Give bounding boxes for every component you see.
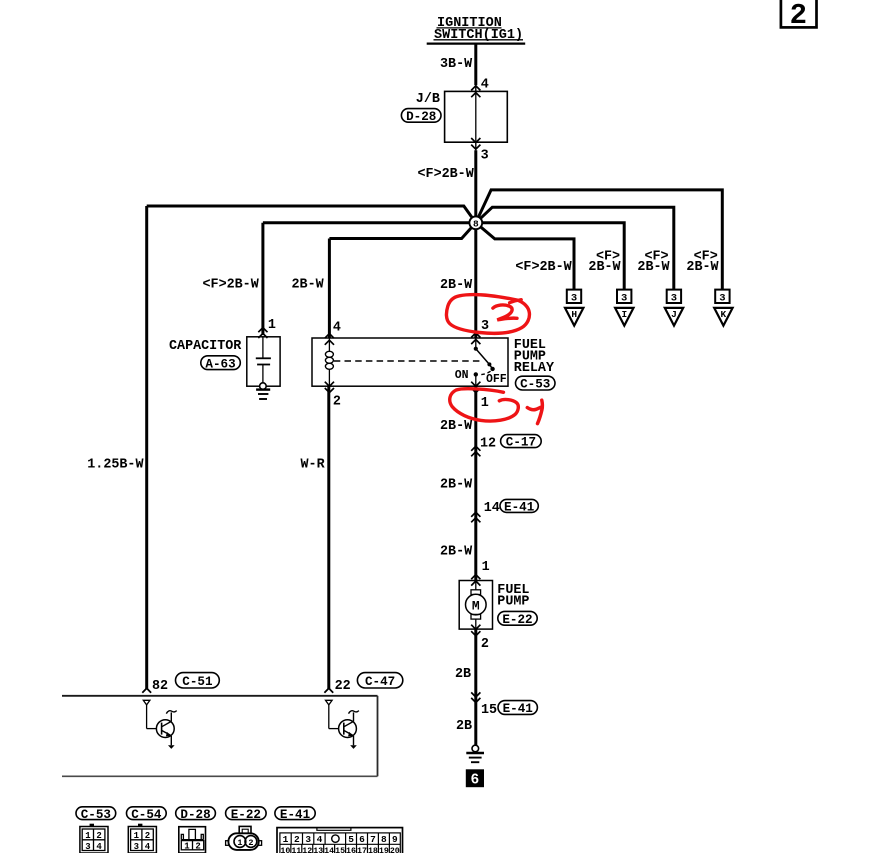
connector chevrons fuel pump pin 1 (471, 575, 480, 586)
wire label 1.25B-W (87, 457, 144, 472)
transistor Q1 (fuel pump relay driver) (143, 700, 176, 749)
svg-text:3: 3 (85, 842, 90, 852)
svg-text:C-53: C-53 (81, 808, 111, 822)
svg-text:J/B: J/B (416, 92, 440, 107)
connector label E-41 lower (498, 701, 537, 717)
svg-text:6: 6 (359, 834, 365, 845)
wire label <F>2B-W branch I (588, 249, 621, 275)
pin 14 E-41 (484, 501, 500, 516)
svg-text:OFF: OFF (486, 373, 507, 386)
svg-text:2B-W: 2B-W (440, 419, 473, 434)
wire 1.25B-W to ECU pin 82 (145, 206, 148, 689)
ignition feed bus line (427, 42, 526, 44)
svg-text:20: 20 (390, 847, 400, 853)
relay switch blade (476, 349, 493, 369)
ground symbol fuel pump (466, 753, 484, 762)
svg-text:2: 2 (790, 0, 807, 32)
wire branch to connector J (476, 207, 674, 290)
connector D-28 pinout (179, 827, 206, 853)
svg-text:4: 4 (317, 834, 323, 845)
motor M1 fuel pump (466, 594, 487, 615)
svg-text:2: 2 (195, 842, 200, 852)
svg-text:3: 3 (571, 292, 577, 304)
wire W-R relay to ECU pin 22 (327, 386, 330, 689)
pin 2 relay (333, 394, 341, 409)
pin 4 J/B (481, 78, 489, 93)
svg-text:2: 2 (481, 637, 489, 652)
svg-text:4: 4 (96, 842, 102, 852)
svg-text:M: M (472, 598, 480, 613)
wire label 2B-W below relay (440, 419, 473, 434)
svg-text:<F>2B-W: <F>2B-W (515, 260, 572, 275)
svg-text:2B-W: 2B-W (440, 545, 473, 560)
wire branch SE to connector H (476, 223, 574, 291)
wire label 2B upper (455, 667, 471, 682)
connector label C-51 (176, 673, 220, 689)
svg-text:4: 4 (481, 78, 489, 93)
pin 3 relay (481, 319, 489, 334)
relay switch output lead (475, 374, 477, 386)
connector chevrons relay pin 1 (471, 382, 480, 393)
wire label 3B-W (440, 57, 473, 72)
wire capacitor feed (261, 223, 264, 335)
pin 1 capacitor (268, 318, 276, 333)
connector C-53 pinout (80, 824, 108, 853)
svg-text:10: 10 (280, 847, 290, 853)
wire label 2B-W relay pin3 branch (440, 278, 473, 293)
connector chevrons J/B pin 4 (471, 86, 480, 97)
capacitor box (247, 337, 280, 386)
svg-text:2B: 2B (455, 667, 471, 682)
svg-text:A-63: A-63 (205, 357, 235, 371)
connector chevrons E-41 pin 15 (471, 692, 480, 702)
fuel pump lead top (475, 581, 477, 590)
svg-text:1: 1 (134, 831, 140, 841)
pin 22 ECU (335, 679, 351, 694)
svg-text:8: 8 (381, 834, 387, 845)
component label FUEL PUMP RELAY (514, 338, 555, 376)
relay switch top contact (474, 347, 478, 351)
pin 3 J/B (481, 149, 489, 164)
svg-text:1: 1 (268, 318, 276, 333)
svg-text:9: 9 (392, 834, 398, 845)
svg-text:2B-W: 2B-W (440, 477, 473, 492)
relay switch OFF dashed arc (479, 371, 491, 374)
motor brush bottom (471, 614, 481, 619)
splice node 8 (469, 216, 482, 229)
svg-text:15: 15 (481, 703, 497, 718)
capacitor ground terminal circle (260, 383, 267, 390)
capacitor C plates (256, 358, 271, 364)
svg-text:11: 11 (291, 847, 301, 853)
svg-text:I: I (621, 309, 627, 320)
connector label E-22 (498, 611, 537, 627)
connector label E-22 bottom (226, 807, 267, 822)
relay switch fixed contact lead (475, 338, 477, 349)
ground reference 6 (466, 769, 484, 788)
svg-text:3B-W: 3B-W (440, 57, 473, 72)
svg-text:2: 2 (96, 831, 101, 841)
red annotation check arrow (527, 400, 542, 423)
connector chevrons E-41 mid (471, 512, 480, 522)
svg-text:3: 3 (134, 842, 139, 852)
wire label 2B-W above pump (440, 545, 473, 560)
connector label D-28 (401, 109, 441, 124)
connector C-54 pinout (128, 824, 156, 853)
connector label C-53 (516, 376, 556, 392)
connector chevrons relay pin 4 (325, 334, 334, 345)
svg-text:C-47: C-47 (365, 675, 395, 689)
svg-text:ON: ON (455, 369, 469, 382)
wire branch SW to relay coil (329, 223, 475, 239)
connector label C-17 (501, 435, 542, 450)
relay coil lead bottom (328, 369, 330, 386)
svg-text:2: 2 (294, 834, 300, 845)
svg-text:2B-W: 2B-W (292, 278, 325, 293)
svg-text:12: 12 (302, 847, 312, 853)
destination triangle H (565, 308, 583, 326)
capacitor internal lead bottom (262, 365, 264, 383)
svg-text:D-28: D-28 (180, 808, 210, 822)
svg-text:15: 15 (335, 847, 345, 853)
wire label 2B lower (456, 719, 472, 734)
connector label C-54 bottom (127, 807, 167, 822)
svg-text:1: 1 (482, 560, 490, 575)
connector chevrons J/B pin 3 (471, 138, 480, 149)
svg-text:16: 16 (346, 847, 356, 853)
capacitor internal lead top (262, 337, 264, 359)
pin 15 E-41 (481, 703, 497, 718)
pin 2 fuel pump (481, 637, 489, 652)
svg-text:C-51: C-51 (182, 675, 213, 689)
svg-text:6: 6 (471, 773, 480, 789)
svg-text:19: 19 (379, 847, 389, 853)
wire label W-R (301, 457, 326, 472)
svg-text:W-R: W-R (301, 457, 326, 472)
node label IGNITION SWITCH(IG1) (434, 16, 524, 43)
svg-text:C-54: C-54 (131, 808, 162, 822)
svg-text:3: 3 (481, 149, 489, 164)
svg-text:18: 18 (368, 847, 378, 853)
red annotation loop around relay pin 3 (446, 295, 529, 334)
wire 2B-W J/B to splice (475, 142, 477, 338)
relay actuation dashed link (334, 360, 483, 362)
ground symbol capacitor (256, 390, 270, 399)
component label CAPACITOR (169, 339, 242, 354)
connector chevrons fuel pump pin 2 (471, 625, 480, 636)
wire label <F>2B-W capacitor branch (203, 278, 260, 293)
svg-text:3: 3 (671, 292, 677, 304)
wire label <F>2B-W branch H (515, 260, 572, 275)
svg-text:2: 2 (248, 838, 253, 848)
wire label <F>2B-W branch K (686, 249, 719, 275)
svg-text:E-22: E-22 (502, 613, 532, 627)
svg-text:E-41: E-41 (280, 808, 311, 822)
svg-text:8: 8 (473, 219, 479, 230)
component label J/B (416, 92, 440, 107)
svg-text:3: 3 (305, 834, 311, 845)
svg-text:2: 2 (333, 394, 341, 409)
pin 12 C-17 (480, 437, 496, 452)
svg-text:3: 3 (621, 292, 627, 304)
pin 3 connector I (617, 290, 631, 305)
connector label C-53 bottom (76, 807, 116, 822)
connector E-22 pinout (226, 826, 262, 849)
red annotation handwritten 2 (493, 305, 517, 320)
wire label <F>2B-W branch J (637, 249, 670, 275)
svg-text:17: 17 (357, 847, 367, 853)
svg-text:H: H (571, 309, 577, 320)
fuel pump relay box (312, 338, 508, 386)
fuel pump box (459, 581, 492, 630)
svg-text:E-41: E-41 (504, 501, 535, 515)
svg-text:13: 13 (313, 847, 323, 853)
svg-text:D-28: D-28 (406, 110, 436, 124)
connector label A-63 (201, 356, 241, 372)
connector chevrons capacitor pin 1 (258, 328, 267, 338)
destination triangle K (714, 308, 732, 326)
wire end arrow pin 22 (324, 688, 333, 692)
svg-text:14: 14 (484, 501, 500, 516)
pin 3 connector J (667, 290, 681, 305)
junction block J/B (445, 91, 508, 142)
wire branch W to capacitor (263, 221, 476, 224)
pin 3 connector K (715, 290, 729, 305)
svg-text:1: 1 (481, 396, 489, 411)
wire relay coil feed (328, 239, 331, 339)
svg-text:14: 14 (324, 847, 334, 853)
svg-text:7: 7 (370, 834, 376, 845)
connector label D-28 bottom (176, 807, 216, 822)
svg-text:PUMP: PUMP (497, 595, 529, 610)
svg-text:3: 3 (719, 292, 725, 304)
fuel pump lead bottom (475, 619, 477, 629)
svg-text:4: 4 (333, 321, 341, 336)
svg-text:2B-W: 2B-W (686, 260, 719, 275)
ground terminal circle (472, 745, 479, 752)
pin 3 connector H (567, 290, 581, 305)
svg-text:2B-W: 2B-W (440, 278, 473, 293)
svg-text:1.25B-W: 1.25B-W (87, 457, 144, 472)
motor brush top (471, 590, 481, 595)
label OFF (486, 373, 507, 386)
red annotation loop around relay pin 1 (450, 389, 519, 421)
svg-text:SWITCH(IG1): SWITCH(IG1) (434, 28, 523, 43)
transistor Q2 (fuel pump drive) (326, 700, 359, 749)
svg-text:12: 12 (480, 437, 496, 452)
svg-text:RELAY: RELAY (514, 361, 555, 376)
svg-text:2B: 2B (456, 719, 472, 734)
wire end arrow pin 82 (142, 688, 151, 692)
svg-text:J: J (671, 309, 677, 320)
connector label E-41 mid (500, 499, 538, 514)
relay switch blade end contact (490, 367, 494, 371)
svg-text:C-53: C-53 (520, 378, 550, 392)
relay coil lead top (328, 338, 330, 351)
connector chevrons relay pin 3 (471, 333, 480, 344)
ECU box (engine control unit, partial) (62, 696, 378, 777)
destination triangle J (665, 308, 683, 326)
pin 82 ECU (152, 679, 168, 694)
svg-text:2B-W: 2B-W (637, 260, 670, 275)
page number box 2 (781, 0, 817, 32)
svg-text:K: K (721, 309, 727, 320)
svg-text:5: 5 (348, 834, 354, 845)
connector E-41 pinout (277, 828, 403, 853)
wire 2B fuel pump to ground (474, 629, 477, 745)
svg-text:<F>2B-W: <F>2B-W (418, 167, 475, 182)
connector label C-47 (357, 673, 402, 689)
svg-text:1: 1 (283, 834, 289, 845)
pin 1 fuel pump (482, 560, 490, 575)
wire branch NE to connector K (476, 190, 723, 291)
wire label 2B-W relay coil branch (292, 278, 325, 293)
wire 3B-W ignition switch to J/B (474, 44, 477, 92)
wire label <F>2B-W (418, 167, 475, 182)
J/B internal wire (475, 91, 477, 142)
svg-text:1: 1 (184, 842, 190, 852)
wire branch E to connector I (476, 223, 624, 291)
wire 2B-W relay to C-17 (474, 386, 477, 580)
destination triangle I (615, 308, 633, 326)
svg-text:1: 1 (237, 838, 242, 848)
svg-text:22: 22 (335, 679, 351, 694)
connector chevrons C-17 (471, 446, 480, 456)
relay coil L1 (325, 351, 333, 369)
svg-text:<F>2B-W: <F>2B-W (203, 278, 260, 293)
relay switch ON contact (474, 372, 478, 376)
svg-text:4: 4 (145, 842, 151, 852)
svg-text:2: 2 (145, 831, 150, 841)
svg-text:1: 1 (85, 831, 91, 841)
connector chevrons relay pin 2 (325, 382, 334, 393)
component label FUEL PUMP (497, 583, 529, 610)
svg-text:CAPACITOR: CAPACITOR (169, 339, 242, 354)
wire label 2B-W below C-17 (440, 477, 473, 492)
connector label E-41 bottom (275, 807, 315, 822)
label ON (455, 369, 469, 382)
pin 1 relay (481, 396, 489, 411)
pin 4 relay (333, 321, 341, 336)
svg-text:E-41: E-41 (503, 702, 534, 716)
svg-text:C-17: C-17 (506, 436, 536, 450)
svg-text:82: 82 (152, 679, 168, 694)
svg-text:2B-W: 2B-W (588, 260, 621, 275)
wire branch NW to far-left vertical (147, 206, 476, 223)
svg-text:E-22: E-22 (231, 808, 261, 822)
